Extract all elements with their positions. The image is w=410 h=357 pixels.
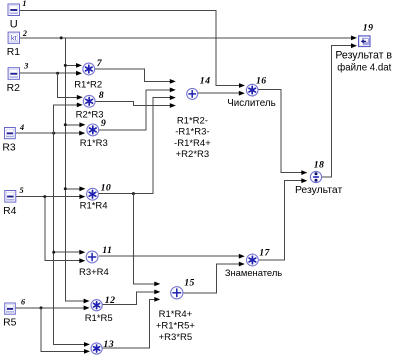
arrowhead into U15 input 2 [154, 290, 160, 295]
wire: R1 bus column down to U12 input 1 [65, 38, 84, 301]
arrowhead into U11 input 1 [79, 250, 85, 255]
arrowhead into U13 input 2 [84, 349, 90, 354]
svg-text:R1*R4: R1*R4 [80, 201, 108, 212]
svg-text:Результат: Результат [295, 185, 342, 196]
svg-text:Знаменатель: Знаменатель [225, 267, 282, 278]
wire: R1 column branch to U10 input 1 [65, 188, 80, 190]
source block R2 (constant) [8, 68, 19, 80]
wire: source R3 output to U9 input 2 [16, 132, 80, 134]
wire: U18 output up to file block U19 input 2 [322, 46, 352, 177]
arrowhead into U19 input 1 [351, 36, 357, 41]
arrowhead into U18 input 1 [301, 170, 307, 175]
svg-text:15: 15 [184, 278, 195, 289]
file sink block U19 (save to file) [359, 36, 370, 47]
multiplier U9 (R1*R3) [87, 124, 99, 136]
svg-text:13: 13 [103, 339, 114, 350]
arrowhead into U9 input 1 [79, 122, 85, 127]
svg-text:19: 19 [363, 22, 374, 33]
svg-text:8: 8 [99, 90, 104, 101]
wire: U15 output to multiplier U17 input 2 [183, 264, 239, 293]
wire: U16 output to divider U18 input 1 [258, 89, 302, 172]
wire: U11 output to multiplier U17 input 1 [99, 255, 240, 257]
arrowhead into U8 input 1 [77, 95, 83, 100]
wire: U7 output to adder U14 input 1 [95, 69, 170, 81]
wire: source R2 output to U7 input 2 [20, 72, 77, 74]
divider U18 (Результат) [310, 171, 321, 182]
arrowhead into U18 input 2 [301, 178, 307, 183]
arrowhead into U14 input 1 [170, 79, 176, 84]
source block U (constant) [8, 4, 20, 16]
wire: U13 output to adder U15 input 3 [102, 299, 155, 348]
svg-text:7: 7 [97, 58, 103, 69]
adder U14 (numerator sum) [187, 88, 198, 99]
source block R4 (constant) [5, 191, 16, 203]
multiplier U13 (R3*R5) [91, 343, 102, 354]
junction on R4 wire [43, 195, 46, 198]
wire: R1 column branch to U7 input 1 [65, 64, 76, 66]
svg-text:U: U [10, 18, 18, 30]
svg-text:файле 4.dat: файле 4.dat [337, 62, 391, 73]
svg-text:4: 4 [19, 123, 25, 132]
wire: U12 output to adder U15 input 2 [102, 292, 155, 305]
svg-text:R3: R3 [2, 143, 16, 154]
svg-text:17: 17 [259, 247, 270, 258]
multiplier U12 (R1*R5) [91, 300, 102, 311]
svg-text:R1*R2: R1*R2 [74, 80, 102, 91]
arrowhead into U7 input 1 [76, 63, 82, 68]
wire: U14 output to multiplier U16 input 2 [198, 92, 240, 94]
arrowhead into U12 input 1 [84, 299, 90, 304]
arrowhead into U17 input 2 [239, 262, 245, 267]
svg-text:3: 3 [23, 62, 29, 71]
arrowhead into U15 input 3 [154, 297, 160, 302]
svg-text:R1*R2--R1*R3--R1*R4++R2*R3: R1*R2--R1*R3--R1*R4++R2*R3 [174, 116, 211, 161]
junction on R2 wire [56, 72, 59, 75]
arrowhead into U10 input 2 [79, 194, 85, 199]
wire: R4 branch down to U11 input 2 [45, 197, 80, 261]
svg-text:18: 18 [314, 160, 325, 171]
multiplier U8 (R2*R3) [83, 95, 95, 107]
svg-text:12: 12 [105, 295, 116, 306]
arrowhead into U16 input 1 [239, 83, 245, 88]
arrowhead into U7 input 2 [76, 71, 82, 76]
svg-text:R1*R3: R1*R3 [80, 138, 108, 149]
wire: R3 column branch to U11 input 1 [54, 251, 80, 253]
arrowhead into U9 input 2 [79, 131, 85, 136]
svg-text:1: 1 [22, 0, 27, 8]
junction on U10 output wire [132, 192, 135, 195]
wire: source R5 output to U12 input 2 [15, 307, 84, 309]
adder U15 (denominator sum) [171, 287, 183, 299]
arrowhead into U15 input 1 [154, 282, 160, 287]
wire: source R1 output to file block U19 input 1 [20, 37, 352, 39]
source block R1 (constant kt) [8, 32, 19, 43]
wire: R2 branch down to U8 input 1 [58, 73, 78, 97]
svg-text:R5: R5 [3, 317, 17, 328]
arrowhead into U16 input 2 [239, 91, 245, 96]
wire: R5 branch down to U13 input 2 [41, 308, 85, 352]
arrowhead into U14 input 2 [170, 88, 176, 93]
arrowhead into U14 input 4 [170, 103, 176, 108]
svg-text:16: 16 [256, 75, 267, 86]
source block R3 (constant) [5, 128, 16, 139]
wire: U8 output to adder U14 input 4 [95, 101, 170, 105]
svg-text:Результат в: Результат в [335, 49, 392, 61]
arrowhead into U10 input 1 [79, 186, 85, 191]
svg-text:R4: R4 [3, 206, 17, 217]
junction R1 column / U9 branch [64, 123, 67, 126]
svg-text:6: 6 [21, 298, 26, 307]
junction R1 column / U10 branch [64, 187, 67, 190]
wire: U10 output branch down to adder U15 input 1 [133, 194, 154, 284]
svg-text:10: 10 [101, 183, 112, 194]
svg-text:R1*R5: R1*R5 [85, 313, 113, 324]
svg-text:Числитель: Числитель [227, 98, 275, 109]
junction on R3 wire [52, 132, 55, 135]
arrowhead into U11 input 2 [79, 258, 85, 263]
multiplier U10 (R1*R4) [87, 188, 99, 200]
svg-text:11: 11 [102, 245, 112, 256]
junction R3 column / U11 branch [52, 251, 55, 254]
svg-text:R1*R4++R1*R5++R3*R5: R1*R4++R1*R5++R3*R5 [156, 309, 196, 343]
junction R1 column / U7 branch [64, 64, 67, 67]
svg-text:14: 14 [200, 76, 211, 87]
svg-text:2: 2 [22, 29, 28, 38]
wire: U17 output to divider U18 input 2 [259, 181, 302, 260]
wire: U10 output to adder U14 input 3 [99, 98, 171, 194]
multiplier U7 (R1*R2) [83, 63, 95, 75]
svg-text:R1: R1 [7, 47, 21, 58]
wire: U9 output to adder U14 input 2 [99, 90, 170, 130]
arrowhead into U19 input 2 [351, 43, 357, 48]
arrowhead into U14 input 3 [170, 95, 176, 100]
svg-text:5: 5 [20, 186, 25, 195]
arrowhead into U17 input 1 [239, 254, 245, 259]
wire: R3 branch up to U8 input 2 [54, 105, 78, 133]
junction on R5 wire [40, 306, 43, 309]
wire: source R4 output to U10 input 2 [16, 196, 80, 198]
svg-text:9: 9 [101, 118, 106, 129]
svg-text:R3+R4: R3+R4 [79, 267, 109, 278]
arrowhead into U8 input 2 [77, 103, 83, 108]
wire: R1 column branch to U9 input 1 [65, 124, 80, 126]
svg-text:R2*R3: R2*R3 [76, 109, 104, 120]
svg-text:R2: R2 [7, 83, 21, 94]
arrowhead into U13 input 1 [84, 342, 90, 347]
multiplier U17 (Знаменатель) [247, 254, 259, 266]
svg-text:kt: kt [11, 33, 18, 42]
wire: source U output to multiplier U16 input 1 [20, 10, 240, 85]
source block R5 (constant) [5, 303, 16, 314]
arrowhead into U12 input 2 [84, 306, 90, 311]
adder U11 (R3+R4) [86, 251, 98, 263]
multiplier U16 (Числитель) [246, 84, 258, 96]
wire: R3 column down to U13 input 1 [54, 133, 85, 344]
junction on R1 wire [60, 36, 63, 39]
